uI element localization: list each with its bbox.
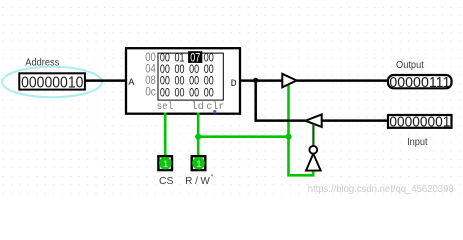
svg-text:00: 00 [175, 76, 185, 88]
svg-text:00: 00 [160, 87, 170, 99]
svg-text:A: A [128, 78, 134, 89]
svg-text:00: 00 [160, 76, 170, 88]
svg-text:Address: Address [25, 58, 59, 69]
svg-text:00: 00 [204, 53, 214, 65]
svg-text:00: 00 [175, 87, 185, 99]
svg-text:Input: Input [407, 137, 428, 148]
svg-text:R / W: R / W [185, 176, 210, 187]
svg-text:08: 08 [145, 75, 156, 87]
svg-text:D: D [231, 79, 237, 90]
svg-text:00: 00 [204, 76, 214, 88]
svg-text:”: ” [211, 173, 214, 182]
svg-text:00: 00 [204, 87, 214, 99]
svg-text:00000010: 00000010 [21, 75, 83, 92]
svg-text:0c: 0c [145, 87, 156, 99]
svg-text:00000001: 00000001 [389, 114, 450, 131]
svg-text:CS: CS [159, 176, 174, 187]
svg-text:1: 1 [196, 159, 201, 170]
svg-text:01: 01 [175, 53, 185, 65]
svg-text:Output: Output [396, 60, 424, 71]
svg-text:00: 00 [189, 76, 199, 88]
svg-text:00: 00 [145, 52, 156, 64]
svg-text:1: 1 [163, 159, 168, 170]
svg-text:04: 04 [145, 63, 156, 75]
svg-text:07: 07 [190, 53, 200, 65]
svg-text:00: 00 [189, 64, 199, 76]
svg-text:00: 00 [204, 64, 214, 76]
svg-text:00: 00 [189, 87, 199, 99]
svg-text:00: 00 [160, 64, 170, 76]
svg-text:sel: sel [157, 101, 174, 113]
svg-text:ld: ld [191, 101, 204, 113]
svg-text:00: 00 [160, 53, 170, 65]
svg-text:https://blog.csdn.net/qq_45620: https://blog.csdn.net/qq_45620398 [308, 184, 454, 195]
svg-text:00000111: 00000111 [389, 74, 450, 91]
svg-text:00: 00 [175, 64, 185, 76]
